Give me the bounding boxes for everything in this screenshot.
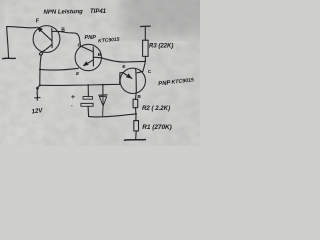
transistor Q3 (PNP KTC9015 output) — [120, 64, 152, 100]
svg-text:TIP41: TIP41 — [90, 9, 107, 15]
D1 triangle — [99, 96, 106, 106]
Q3 base bar — [135, 69, 138, 92]
wire: R3 bottom to Q3 collector — [143, 56, 146, 71]
junction: diode top — [102, 84, 104, 86]
D1 cathode bar — [99, 94, 107, 96]
battery positive terminal stub — [36, 88, 38, 94]
junction: rail / wire 2 — [39, 84, 41, 86]
wire: left vertical down to ground — [7, 27, 9, 58]
Q1 body circle — [33, 26, 60, 53]
Q1 base lead — [52, 30, 64, 33]
Q1 emitter lead — [40, 29, 52, 41]
svg-text:C: C — [78, 43, 82, 49]
C1 top lead — [87, 85, 89, 97]
wire: R2 bottom to junction — [135, 108, 137, 114]
Q3 emitter lead — [123, 73, 132, 79]
wire: Q1 base to Q2 collector — [64, 32, 80, 45]
Q2 emitter arrowhead — [83, 61, 89, 66]
capacitor C1 — [71, 85, 93, 116]
svg-text:R2 ( 2.2K): R2 ( 2.2K) — [142, 105, 170, 112]
Q3 collector lead — [136, 71, 143, 73]
battery plus sign — [35, 95, 40, 100]
wire: rail to Q2 emitter — [40, 68, 78, 70]
Q1 collector curl — [39, 51, 44, 55]
diode D1 — [99, 85, 107, 117]
junction: capacitor top — [87, 84, 89, 86]
junction: rail end at battery — [36, 87, 39, 90]
wire: Q1 collector down to +12V rail — [37, 55, 41, 88]
resistor R3 — [143, 40, 149, 56]
C1 polarity plus mark — [72, 95, 75, 98]
wire: Q1 emitter to upper-left corner — [7, 27, 37, 28]
label: PNP KTC9015 (Q3) — [158, 77, 195, 87]
Q2 emitter lead — [84, 60, 93, 66]
Q3 body circle — [120, 68, 145, 93]
ground (under R1) — [125, 139, 146, 142]
C1 bottom lead — [87, 106, 90, 116]
Q2 collector lead — [80, 46, 93, 52]
wire: bottom rail to R2/R1 junction — [89, 114, 136, 117]
svg-text:PNP: PNP — [85, 35, 97, 41]
transistor Q2 (PNP KTC9015 driver) — [75, 43, 102, 77]
D1 top lead — [102, 85, 104, 94]
wire: junction to R1 top — [135, 114, 137, 121]
junction: rail / wire 1 — [39, 68, 41, 70]
resistor R2 — [133, 99, 138, 107]
wire: rail to capacitor/diode top and up to Q3 emitter — [40, 73, 123, 86]
label: PNP KTC9015 (Q2) — [85, 35, 120, 44]
wire: R1 bottom to ground — [135, 131, 138, 139]
terminal bar at top of R3 — [141, 25, 151, 28]
svg-text:R1 (270K): R1 (270K) — [142, 124, 171, 131]
svg-text:R3 (22K): R3 (22K) — [149, 44, 173, 50]
ground (left, Q1 emitter) — [3, 57, 16, 59]
C1 bottom plate — [81, 103, 93, 106]
resistor R1 — [134, 121, 139, 131]
Q2 base bar — [92, 47, 94, 66]
wire: Q3 base to R2 — [135, 91, 138, 99]
Q2 base lead — [93, 56, 101, 58]
Q2 body circle — [75, 44, 101, 70]
D1 center/bottom lead — [102, 95, 105, 117]
label: title "NPN Leistung TIP41" — [43, 9, 106, 16]
transistor Q1 (NPN power TIP41) — [33, 18, 65, 55]
Q1 emitter arrowhead — [37, 26, 43, 32]
C1 polarity minus dot — [71, 105, 72, 106]
svg-text:C: C — [148, 69, 152, 75]
svg-text:B: B — [98, 52, 102, 58]
C1 top plate — [83, 97, 93, 100]
paper noise overlay — [0, 0, 200, 146]
svg-text:F: F — [36, 18, 39, 24]
wire: terminal down to R3 — [144, 27, 146, 41]
svg-text:NPN Leistung: NPN Leistung — [43, 9, 83, 16]
Q1 base bar — [51, 29, 53, 48]
Q1 collector lead — [44, 44, 52, 50]
wire: Q2 base to node at R3 / Q3 collector — [101, 58, 145, 62]
Q3 emitter arrowhead — [126, 73, 132, 78]
junction: R3 / Q2 base / Q3 collector — [144, 61, 146, 63]
junction: R2 / R1 / bottom rail — [135, 113, 137, 115]
